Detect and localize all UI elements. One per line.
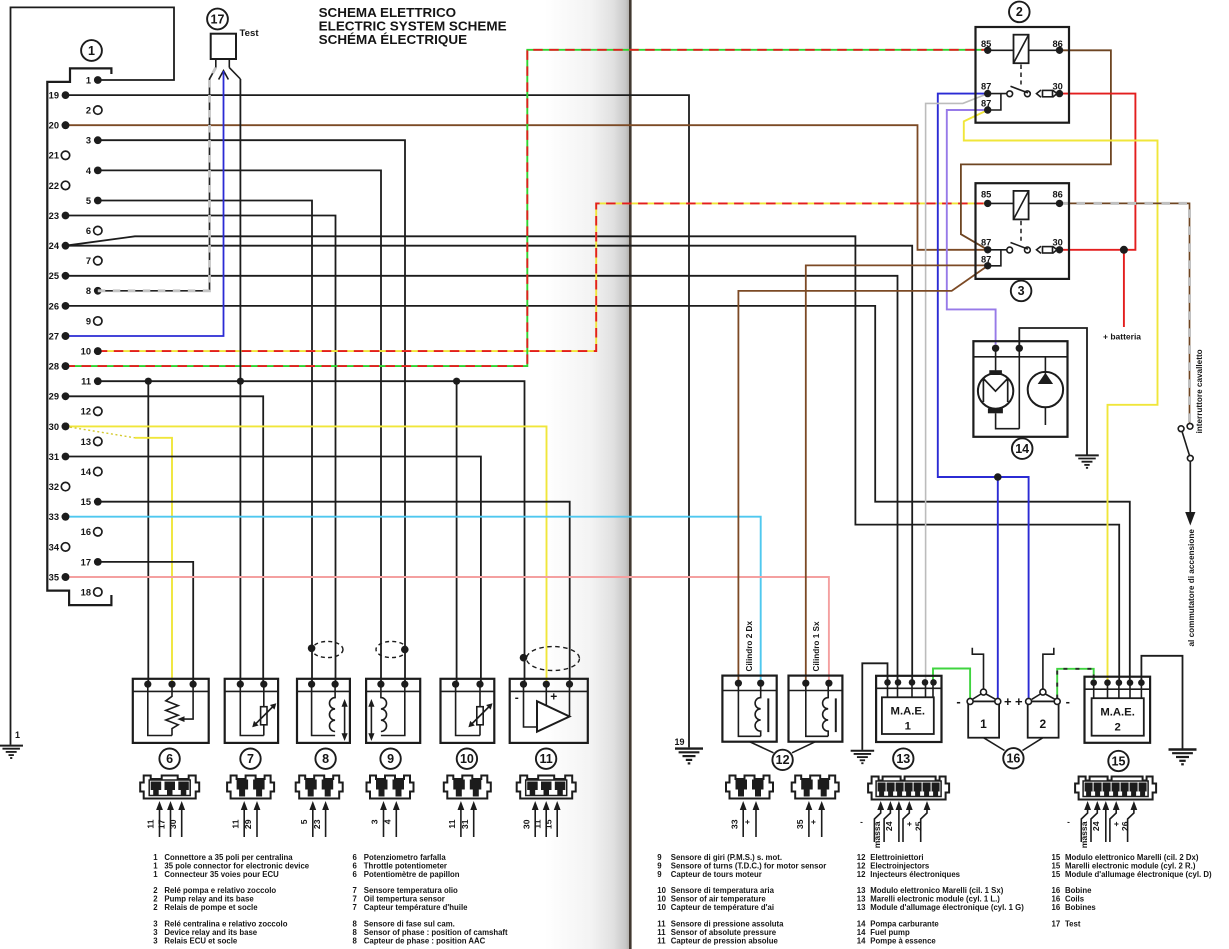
pin arrow 4	[383, 801, 400, 837]
svg-text:30: 30	[1053, 238, 1063, 248]
ignition coil 1	[956, 648, 1012, 738]
pin arrow 23	[312, 801, 329, 837]
svg-text:': '	[1066, 822, 1076, 824]
svg-text:31: 31	[460, 819, 470, 829]
svg-text:13: 13	[857, 903, 866, 912]
pin arrow 26	[1120, 801, 1137, 842]
ECU pin 6 (open)	[86, 226, 102, 236]
ECU pin 32 (open)	[49, 482, 70, 492]
component label circle 13	[893, 748, 913, 768]
ECU pin 22 (open)	[49, 181, 70, 191]
svg-text:29: 29	[49, 392, 59, 402]
svg-text:3: 3	[153, 937, 158, 946]
ECU pin 12 (open)	[81, 407, 102, 417]
svg-text:35: 35	[49, 572, 59, 582]
ECU pin 7 (open)	[86, 256, 102, 266]
svg-text:87: 87	[981, 82, 991, 92]
svg-text:15: 15	[1112, 754, 1126, 768]
svg-text:85: 85	[981, 190, 991, 200]
ECU pin 25 (filled)	[49, 271, 70, 281]
svg-text:25: 25	[49, 271, 59, 281]
pin arrow 24	[884, 801, 902, 842]
svg-text:13: 13	[81, 437, 91, 447]
svg-text:11: 11	[146, 819, 156, 828]
wire pin10 yellow/red dashed to relay3 85	[98, 203, 988, 351]
ground (bottom left, node 1)	[0, 746, 23, 758]
junction dot and dashed ellipse above sensor 9	[376, 641, 409, 657]
svg-text:8: 8	[322, 752, 329, 766]
svg-text:23: 23	[312, 819, 322, 829]
ECU pin 20 (filled)	[49, 121, 70, 131]
svg-text:12: 12	[857, 870, 866, 879]
svg-text:Cilindro 2 Dx: Cilindro 2 Dx	[745, 621, 754, 672]
page seam edge line	[629, 0, 632, 949]
svg-text:2: 2	[1114, 722, 1120, 734]
wire green/black dashed M.A.E.2 pin1 to coil2 minus	[1057, 669, 1094, 699]
wire pin26 to M.A.E.2 pin4	[66, 306, 1130, 683]
pin arrow '	[859, 801, 885, 842]
ECU pin 35 (filled)	[49, 572, 70, 582]
wire fuel pump right pin to ground	[1019, 328, 1087, 455]
svg-text:15: 15	[81, 497, 91, 507]
ground at M.A.E.2	[1169, 750, 1197, 765]
svg-text:4: 4	[383, 819, 393, 824]
wire pin33 cyan to injector1 right pin	[66, 517, 761, 684]
svg-text:17: 17	[1052, 920, 1061, 929]
ECU pin 13 (open)	[81, 437, 102, 447]
plug connector for 6	[140, 776, 199, 799]
component label circle 3	[1011, 281, 1032, 302]
svg-text:10: 10	[460, 752, 474, 766]
ECU pin 27 (filled)	[49, 331, 70, 341]
svg-text:14: 14	[81, 467, 92, 477]
svg-text:19: 19	[674, 737, 684, 747]
sensor 10 (air temperature) box	[441, 679, 495, 743]
svg-text:35: 35	[795, 819, 805, 829]
svg-text:interruttore cavalletto: interruttore cavalletto	[1195, 349, 1204, 433]
svg-text:30: 30	[49, 422, 59, 432]
svg-text:30: 30	[1053, 82, 1063, 92]
wire pin27 blue to test connector	[66, 71, 224, 336]
pin arrow massa	[872, 801, 894, 848]
pin arrow 35	[795, 801, 812, 837]
pointer lines from coils to label 16	[984, 738, 1043, 751]
svg-text:15: 15	[543, 819, 553, 829]
pin arrow 33	[729, 801, 746, 837]
wire pin25 to M.A.E.1 pin2	[66, 276, 898, 683]
stand switch (interruttore cavalletto)	[1178, 423, 1195, 525]
svg-text:86: 86	[1053, 190, 1063, 200]
pin arrow 15	[543, 801, 560, 837]
svg-text:+: +	[742, 820, 752, 825]
pin arrow 31	[460, 801, 477, 837]
ECU pin 17 (filled)	[81, 557, 102, 567]
svg-text:12: 12	[81, 407, 91, 417]
svg-text:17: 17	[157, 819, 167, 829]
pin arrow 11	[146, 801, 163, 837]
svg-text:3: 3	[370, 819, 380, 824]
svg-text:11: 11	[81, 377, 91, 387]
test connector 17: body	[211, 34, 241, 80]
wire pin24 diagonal branch to M.A.E.2 pin3	[66, 236, 1120, 682]
svg-text:7: 7	[86, 256, 91, 266]
wire M.A.E.2 pin5 to ground	[1141, 656, 1182, 749]
junction dots on pin11 bus	[145, 378, 461, 385]
plug connector for 15	[1075, 777, 1156, 800]
pin arrow 11	[230, 801, 247, 837]
svg-text:30: 30	[168, 819, 178, 829]
svg-text:25: 25	[913, 821, 923, 831]
svg-text:1: 1	[980, 717, 987, 731]
component label circle 17	[207, 9, 228, 30]
component label circle 14	[1012, 438, 1033, 459]
svg-text:24: 24	[1091, 821, 1101, 831]
svg-text:Potentiomètre de papillon: Potentiomètre de papillon	[364, 870, 460, 879]
plug connector for 10	[444, 776, 491, 799]
component label circle 12	[772, 750, 792, 770]
svg-text:1: 1	[153, 870, 158, 879]
svg-text:Capteur de pression absolue: Capteur de pression absolue	[671, 937, 779, 946]
svg-text:Injecteurs électroniques: Injecteurs électroniques	[870, 870, 960, 879]
svg-text:10: 10	[657, 903, 666, 912]
wire relay2-30 red to relay3-30	[1060, 94, 1136, 250]
sensor 7 (oil temperature) box	[225, 679, 278, 743]
wire pin20 brown to relay3 87	[66, 125, 988, 250]
relay 2 body	[976, 27, 1070, 123]
svg-text:33: 33	[49, 512, 59, 522]
pointer lines from injectors to label 12	[750, 742, 816, 753]
svg-text:32: 32	[49, 482, 59, 492]
ECU pin 3 (filled)	[86, 136, 102, 146]
svg-text:5: 5	[86, 196, 91, 206]
pin arrow '	[1066, 801, 1092, 842]
svg-text:16: 16	[81, 527, 91, 537]
svg-text:7: 7	[353, 903, 357, 912]
page seam shadow	[545, 0, 629, 949]
svg-text:+: +	[550, 690, 557, 704]
svg-text:2: 2	[1016, 5, 1023, 19]
svg-text:2: 2	[153, 903, 158, 912]
svg-text:Capteur de température d'ai: Capteur de température d'ai	[671, 903, 774, 912]
wire blue branch to coil 1	[997, 477, 999, 699]
svg-text:34: 34	[49, 542, 60, 552]
ECU pin 31 (filled)	[49, 452, 70, 462]
pin arrow 24	[1091, 801, 1109, 842]
pin arrow +	[808, 801, 825, 837]
wire pin11 bus to sensor11 left pin	[98, 381, 525, 684]
svg-text:16: 16	[1052, 903, 1061, 912]
svg-text:8: 8	[86, 286, 91, 296]
plug connector for 13	[868, 777, 949, 800]
ECU pin 19 (filled)	[49, 91, 70, 101]
wire relay3-86 gray/brown dashed to stand switch	[1060, 203, 1190, 422]
ECU pin 26 (filled)	[49, 301, 70, 311]
svg-text:11: 11	[532, 819, 542, 828]
wire red branch to + batteria	[1123, 250, 1125, 327]
svg-text:29: 29	[243, 819, 253, 829]
wire injector2 brown to relay3-87b	[806, 265, 988, 683]
ECU pin 24 (filled)	[49, 241, 70, 251]
svg-text:12: 12	[776, 753, 790, 767]
svg-text:M.A.E.: M.A.E.	[1100, 707, 1135, 719]
svg-text:2: 2	[86, 106, 91, 116]
svg-text:6: 6	[353, 870, 358, 879]
black pin dots over colored wires	[62, 121, 102, 581]
M.A.E. 2 module box	[1085, 677, 1151, 743]
svg-text:7: 7	[247, 752, 254, 766]
pin arrow 30	[168, 801, 185, 837]
ECU pin 29 (filled)	[49, 392, 70, 402]
svg-text:+: +	[808, 820, 818, 825]
junction dot and dashed ellipse above sensor 8	[308, 641, 343, 657]
component label circle 9	[380, 749, 400, 769]
svg-text:2: 2	[1040, 717, 1047, 731]
svg-text:11: 11	[539, 752, 552, 766]
wire pin17 to sensor6 right pin	[98, 562, 193, 684]
svg-text:Relais ECU et socle: Relais ECU et socle	[164, 937, 237, 946]
svg-text:6: 6	[166, 752, 173, 766]
wire relay2-86 brown loop to relay3 87	[961, 50, 1111, 250]
wire green M.A.E.1 pin5 to coil1 minus	[933, 669, 970, 699]
sensor 6 (throttle potentiometer) box	[133, 679, 209, 743]
svg-text:Capteur température d'huile: Capteur température d'huile	[364, 903, 468, 912]
ECU pin 34 (open)	[49, 542, 70, 552]
pin arrow 17	[157, 801, 174, 837]
wire injector1 brown to relay3-87b	[738, 266, 987, 683]
svg-text:11: 11	[230, 819, 240, 828]
wire relay2-87b purple to fuel pump	[947, 110, 996, 345]
ECU pin 11 (filled)	[81, 377, 102, 387]
ECU pin 9 (open)	[86, 316, 102, 326]
svg-text:16: 16	[1006, 752, 1020, 766]
wire pin4 to sensor9 left pin	[98, 170, 381, 684]
wire pin31 to sensor10 right pin	[66, 457, 481, 685]
ECU pin 21 (open)	[49, 151, 70, 161]
wire pin8 dashed to test connector	[98, 68, 216, 291]
component label circle 2	[1009, 2, 1030, 23]
ground 19	[675, 749, 703, 764]
ECU pin 8 (filled)	[86, 286, 102, 296]
component label circle 16	[1003, 748, 1023, 768]
fuel pump 14 body	[973, 341, 1067, 437]
wire pin30 yellow to sensor11 middle pin	[66, 426, 547, 684]
svg-text:Pompe à essence: Pompe à essence	[870, 937, 936, 946]
svg-text:Test: Test	[240, 28, 260, 39]
ground at fuel pump	[1075, 455, 1099, 467]
wire relay2-87 gray to M.A.E.1 pin4	[926, 94, 988, 683]
injector 1 (Cilindro 2 Dx) box	[722, 676, 776, 742]
svg-text:SCHÉMA ÉLECTRIQUE: SCHÉMA ÉLECTRIQUE	[319, 32, 468, 47]
component label circle 15	[1108, 751, 1128, 771]
component label circle 7	[240, 749, 260, 769]
svg-text:11: 11	[657, 937, 666, 946]
svg-text:5: 5	[299, 819, 309, 824]
svg-text:13: 13	[896, 752, 910, 766]
wire branch pin11 bus to sensor10 left pin	[456, 381, 458, 684]
pin arrow 30	[521, 801, 538, 837]
ECU pin 18 (open)	[81, 587, 102, 597]
svg-text:Capteur de phase : position AA: Capteur de phase : position AAC	[364, 937, 486, 946]
svg-text:+: +	[1004, 694, 1012, 709]
ground at M.A.E.1	[851, 751, 875, 763]
pin arrow massa	[1079, 801, 1101, 848]
wire pin5 to sensor8 left pin	[98, 201, 312, 685]
wire pin23 to sensor8 right pin	[66, 216, 336, 685]
svg-text:Bobines: Bobines	[1065, 903, 1096, 912]
component label circle 10	[457, 749, 477, 769]
wire pin30 dotted branch to sensor6 middle pin	[66, 426, 173, 684]
plug connector for 12 cyl2	[726, 776, 773, 799]
pin arrow 11	[532, 801, 549, 837]
svg-text:': '	[859, 822, 869, 824]
svg-text:26: 26	[1120, 821, 1130, 831]
sensor 9 (rpm/TDC) box	[366, 679, 420, 743]
ECU connector 1: 35-pole connector body	[47, 68, 111, 605]
plug connector for 9	[367, 776, 414, 799]
pin arrow 5	[299, 801, 316, 837]
svg-text:Connecteur 35 voies pour ECU: Connecteur 35 voies pour ECU	[164, 870, 279, 879]
ECU pin 4 (filled)	[86, 166, 102, 176]
component label circle 1	[81, 40, 102, 61]
sensor 8 (camshaft phase) box	[297, 679, 350, 743]
svg-text:18: 18	[81, 587, 91, 597]
svg-text:33: 33	[729, 819, 739, 829]
svg-text:Module d'allumage électronique: Module d'allumage électronique (cyl. D)	[1065, 870, 1212, 879]
svg-text:14: 14	[857, 937, 866, 946]
svg-text:28: 28	[49, 362, 59, 372]
plug connector for 11	[517, 776, 576, 799]
wire test connector down through pin11 bus to sensor7 left pin	[239, 79, 241, 684]
wire relay2-87b yellow to M.A.E.2 pin2	[964, 110, 1158, 683]
svg-text:1: 1	[86, 75, 91, 85]
svg-text:6: 6	[86, 226, 91, 236]
svg-text:Capteur de tours moteur: Capteur de tours moteur	[671, 870, 762, 879]
svg-text:22: 22	[49, 181, 59, 191]
ECU pin 2 (open)	[86, 106, 102, 116]
wire M.A.E.1 pin1 to ground	[862, 663, 887, 750]
ECU pin 28 (filled)	[49, 362, 70, 372]
plug connector for 12 cyl1	[792, 776, 839, 799]
svg-text:31: 31	[49, 452, 59, 462]
svg-text:21: 21	[49, 151, 59, 161]
pin arrow 11	[447, 801, 464, 837]
pin arrow +	[903, 801, 914, 842]
svg-text:20: 20	[49, 121, 59, 131]
svg-text:4: 4	[86, 166, 92, 176]
svg-text:Relais de pompe et socle: Relais de pompe et socle	[164, 903, 258, 912]
svg-text:-: -	[956, 694, 960, 709]
svg-text:3: 3	[86, 136, 91, 146]
plug connector for 8	[296, 776, 343, 799]
plug connector for 7	[227, 776, 274, 799]
ECU pin 30 (filled)	[49, 422, 70, 432]
wire pin15 to sensor11 right pin	[98, 502, 570, 685]
svg-text:87: 87	[981, 238, 991, 248]
svg-text:Module d'allumage électronique: Module d'allumage électronique (cyl. 1 G…	[870, 903, 1024, 912]
svg-text:9: 9	[657, 870, 662, 879]
component label circle 6	[159, 749, 179, 769]
svg-text:24: 24	[49, 241, 60, 251]
relay 3 body	[976, 183, 1070, 279]
svg-text:30: 30	[521, 819, 531, 829]
ignition coil 2	[1015, 648, 1070, 738]
title block	[319, 5, 507, 47]
junction dot and big dashed ellipse above sensor 11	[520, 647, 580, 671]
svg-text:15: 15	[1052, 870, 1061, 879]
wire relay2-87 blue to coils	[938, 94, 1029, 699]
wire pin19 to ground 19	[66, 95, 690, 747]
ECU pin 15 (filled)	[81, 497, 102, 507]
svg-text:3: 3	[1018, 284, 1025, 298]
ECU pin 1 (filled)	[86, 75, 102, 85]
svg-text:al commutatore di accensione: al commutatore di accensione	[1187, 529, 1196, 647]
svg-text:26: 26	[49, 301, 59, 311]
svg-text:11: 11	[447, 819, 457, 828]
component label circle 8	[315, 749, 335, 769]
wire pin1 loop to left ground	[11, 7, 175, 744]
pin arrow +	[1110, 801, 1121, 842]
wire branch pin11 bus to sensor6 left pin	[147, 381, 149, 684]
wire pin35 pink to injector2 right pin	[66, 577, 829, 683]
ECU pin 23 (filled)	[49, 211, 70, 221]
svg-text:24: 24	[884, 821, 894, 831]
svg-text:massa: massa	[1079, 821, 1089, 848]
ECU pin 33 (filled)	[49, 512, 70, 522]
svg-text:17: 17	[211, 12, 225, 26]
svg-text:10: 10	[81, 347, 91, 357]
wire pin28 green/red dashed to relay2 85	[66, 50, 988, 366]
svg-text:SCHEMA ELETTRICO: SCHEMA ELETTRICO	[319, 5, 457, 20]
svg-text:-: -	[1066, 694, 1070, 709]
svg-text:M.A.E.: M.A.E.	[891, 706, 926, 718]
svg-text:+: +	[1015, 694, 1023, 709]
wire pin24 straight to M.A.E.1 pin3	[66, 246, 913, 683]
svg-text:8: 8	[353, 937, 358, 946]
injector 2 (Cilindro 1 Sx) box	[789, 676, 843, 742]
pin arrow 25	[913, 801, 930, 842]
svg-text:1: 1	[905, 721, 911, 733]
pin arrow 3	[370, 801, 387, 837]
component label circle 11	[536, 749, 556, 769]
svg-text:+ batteria: + batteria	[1103, 332, 1141, 342]
svg-text:Test: Test	[1065, 920, 1081, 929]
ECU pin 10 (filled)	[81, 347, 102, 357]
svg-text:-: -	[515, 691, 519, 705]
M.A.E. 1 module box	[876, 676, 941, 742]
wire pin3 to sensor9 right pin	[98, 140, 405, 684]
pin arrow 29	[243, 801, 260, 837]
wire pin29 to sensor7 right pin	[66, 396, 264, 684]
ECU pin 16 (open)	[81, 527, 102, 537]
ECU pin 5 (filled)	[86, 196, 102, 206]
svg-text:9: 9	[387, 752, 394, 766]
svg-text:23: 23	[49, 211, 59, 221]
svg-text:14: 14	[1015, 442, 1029, 456]
svg-text:19: 19	[49, 91, 59, 101]
svg-text:1: 1	[88, 44, 95, 58]
pin arrow +	[742, 801, 759, 837]
legend text	[153, 853, 1212, 946]
ECU pin 14 (open)	[81, 467, 102, 477]
svg-text:17: 17	[81, 557, 91, 567]
svg-text:27: 27	[49, 331, 59, 341]
svg-text:massa: massa	[872, 821, 882, 848]
svg-text:1: 1	[15, 730, 20, 740]
svg-text:9: 9	[86, 316, 91, 326]
sensor 11 (absolute pressure) box with op-amp	[510, 679, 588, 743]
svg-text:Cilindro 1 Sx: Cilindro 1 Sx	[812, 621, 821, 671]
